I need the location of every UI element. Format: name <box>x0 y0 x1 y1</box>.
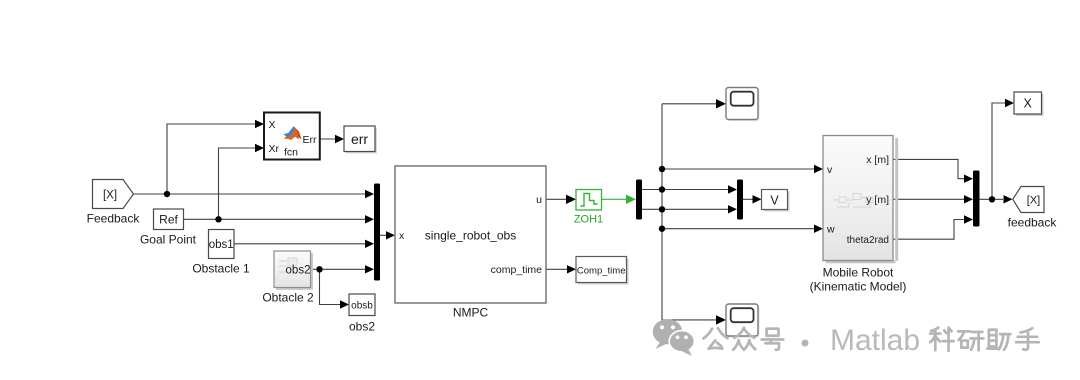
arrowhead into fcn X <box>255 120 264 128</box>
wire: Demux1 output 2 to Mux2 input 2 <box>642 208 734 210</box>
junction dot on goal line <box>215 216 221 222</box>
arrowhead into err <box>335 135 344 143</box>
svg-text:Goal Point: Goal Point <box>140 233 197 247</box>
arrowhead into Mux3 input 3 <box>964 215 973 223</box>
svg-text:X: X <box>1024 97 1033 111</box>
wire: branch to Mobile Robot port w <box>662 228 820 230</box>
ZOH1 zero-order-hold block (green) <box>574 190 603 226</box>
svg-text:y [m]: y [m] <box>866 194 889 206</box>
wire: obs2 (Obtacle 2) to Mux1 input 4 <box>311 268 372 270</box>
wire: branch to Scope1 <box>662 103 723 105</box>
svg-text:Obstacle 1: Obstacle 1 <box>192 262 250 276</box>
arrowhead into fcn Xr <box>255 144 264 152</box>
junction dot on feedback line <box>164 191 170 197</box>
junction dot mux3 output <box>989 196 995 202</box>
wire: fcn Err output to err goto <box>320 138 341 140</box>
svg-text:obs2: obs2 <box>286 265 311 277</box>
obsb goto block <box>349 294 375 334</box>
wire: NMPC u output to ZOH1 <box>546 198 573 200</box>
glyph gong <box>703 328 727 349</box>
V display block <box>762 190 790 212</box>
wire: Demux1 output 1 to Mux2 input 1 <box>642 189 734 191</box>
wire: Mobile Robot y[m] to Mux3 input 2 <box>893 198 970 200</box>
Mux1 bar <box>374 184 380 281</box>
junction dot demux out2 <box>659 206 665 212</box>
svg-text:[X]: [X] <box>103 190 117 202</box>
wire: Mux1 output to NMPC port x <box>380 234 392 236</box>
MATLAB logo inside fcn <box>284 126 302 140</box>
goto [X] feedback block <box>1008 187 1058 230</box>
svg-text:V: V <box>770 193 779 207</box>
svg-text:obsb: obsb <box>351 300 373 311</box>
svg-text:Err: Err <box>303 134 318 146</box>
arrowhead into Mux2 input 1 <box>728 185 737 193</box>
arrowhead into goto [X] feedback <box>1004 195 1013 203</box>
arrowhead into ZOH1 <box>566 195 576 204</box>
glyph shou <box>1016 328 1039 350</box>
svg-text:[X]: [X] <box>1027 195 1040 207</box>
svg-text:obs2: obs2 <box>349 320 375 334</box>
glyph yan <box>958 331 983 350</box>
svg-text:NMPC: NMPC <box>453 306 489 320</box>
svg-text:theta2rad: theta2rad <box>847 235 889 246</box>
Mux2 bar <box>737 180 743 220</box>
wire: NMPC comp_time output to Comp_time display <box>546 268 573 270</box>
svg-text:err: err <box>351 131 368 147</box>
MATLAB Function block fcn <box>264 113 320 160</box>
wire: branch up to fcn port X <box>167 124 261 194</box>
junction dot w branch <box>659 226 665 232</box>
arrowhead into Mux1 input 2 <box>365 215 374 223</box>
Mobile Robot (Kinematic Model) subsystem block <box>810 136 907 294</box>
wire: branch up to fcn port Xr <box>219 148 262 219</box>
svg-text:Feedback: Feedback <box>87 212 141 226</box>
wire: Mobile Robot x[m] to Mux3 input 1 <box>893 159 970 178</box>
watermark middle dot <box>802 340 809 347</box>
svg-text:single_robot_obs: single_robot_obs <box>425 228 516 242</box>
glyph hao <box>762 329 784 350</box>
arrowhead into Mux2 input 2 <box>728 205 737 213</box>
arrowhead into Mux1 input 1 <box>365 190 374 198</box>
svg-text:w: w <box>826 224 835 236</box>
wire: Mobile Robot theta2rad to Mux3 input 3 <box>893 220 970 240</box>
svg-text:Matlab: Matlab <box>830 324 920 357</box>
arrowhead into Mux3 input 1 <box>964 175 973 183</box>
green arrowhead into Demux1 <box>626 195 636 204</box>
arrowhead into V display <box>753 195 762 203</box>
arrowhead into Mux1 input 3 <box>365 240 374 248</box>
Mux3 bar <box>973 171 980 227</box>
arrowhead into Mux3 input 2 <box>964 195 973 203</box>
svg-text:X: X <box>269 119 276 131</box>
NMPC subsystem block <box>395 166 546 320</box>
watermark text: 公众号 · Matlab科研助手 <box>703 328 1038 351</box>
Scope1 block <box>726 88 760 122</box>
glyph ke <box>930 328 953 351</box>
svg-text:fcn: fcn <box>284 147 298 159</box>
arrowhead into NMPC x <box>386 231 395 239</box>
Demux1 bar <box>636 180 642 220</box>
svg-text:Xr: Xr <box>269 143 280 155</box>
svg-text:u: u <box>536 194 542 206</box>
svg-text:feedback: feedback <box>1008 216 1058 230</box>
svg-text:ZOH1: ZOH1 <box>574 214 603 226</box>
wire: Mux2 output to V display <box>743 198 759 200</box>
wire: branch to Scope2 <box>662 319 723 321</box>
glyph zhong <box>733 328 755 350</box>
glyph zhu <box>987 330 1010 350</box>
svg-text:x [m]: x [m] <box>866 154 889 166</box>
wire: From [X] Feedback to Mux1 input 1 <box>134 193 372 195</box>
obs2 block (Obtacle 2, shaded subsystem) <box>262 251 314 305</box>
svg-text:(Kinematic Model): (Kinematic Model) <box>810 280 907 294</box>
svg-text:v: v <box>827 164 833 176</box>
Comp_time display block <box>576 257 629 285</box>
junction dot on obs2 line <box>316 266 322 272</box>
svg-text:Mobile Robot: Mobile Robot <box>823 266 894 280</box>
Scope2 block <box>726 304 760 338</box>
arrowhead into Mobile Robot w <box>814 225 823 233</box>
arrowhead into obsb <box>340 300 349 308</box>
err goto block <box>344 126 377 153</box>
svg-text:Obtacle 2: Obtacle 2 <box>262 291 314 305</box>
arrowhead into Mobile Robot v <box>814 165 823 173</box>
wire: obs1 (Obstacle 1) to Mux1 input 3 <box>234 243 371 245</box>
arrowhead into goto X <box>1005 99 1014 107</box>
wire: vertical bus branch line <box>661 104 663 320</box>
arrowhead into Comp_time <box>567 265 576 273</box>
Ref block (Goal Point) <box>140 209 197 247</box>
svg-text:x: x <box>399 230 405 242</box>
svg-text:obs1: obs1 <box>209 239 234 251</box>
obs1 block (Obstacle 1) <box>192 230 250 276</box>
junction dot v branch <box>659 166 665 172</box>
wire: Ref (Goal Point) to Mux1 input 2 <box>184 218 372 220</box>
svg-text:Ref: Ref <box>159 213 178 227</box>
X goto block <box>1014 92 1044 116</box>
junction dot demux out1 <box>659 186 665 192</box>
wire: Mux3 output to goto [X] feedback <box>980 198 1004 200</box>
From block [X] Feedback <box>87 180 141 226</box>
arrowhead into Scope2 <box>716 315 726 324</box>
faint internal sketch <box>833 194 873 208</box>
wire: branch from obs2 down to obsb goto <box>320 269 347 304</box>
wire: ZOH1 green output to Demux1 <box>602 198 628 200</box>
watermark wechat logo <box>653 319 695 356</box>
wire: branch up to goto X <box>992 103 1011 199</box>
svg-text:Comp_time: Comp_time <box>577 265 626 276</box>
arrowhead into Mux1 input 4 <box>365 265 374 273</box>
wire: branch to Mobile Robot port v <box>662 168 820 170</box>
arrowhead into Scope1 <box>716 99 726 108</box>
svg-text:comp_time: comp_time <box>491 264 543 276</box>
